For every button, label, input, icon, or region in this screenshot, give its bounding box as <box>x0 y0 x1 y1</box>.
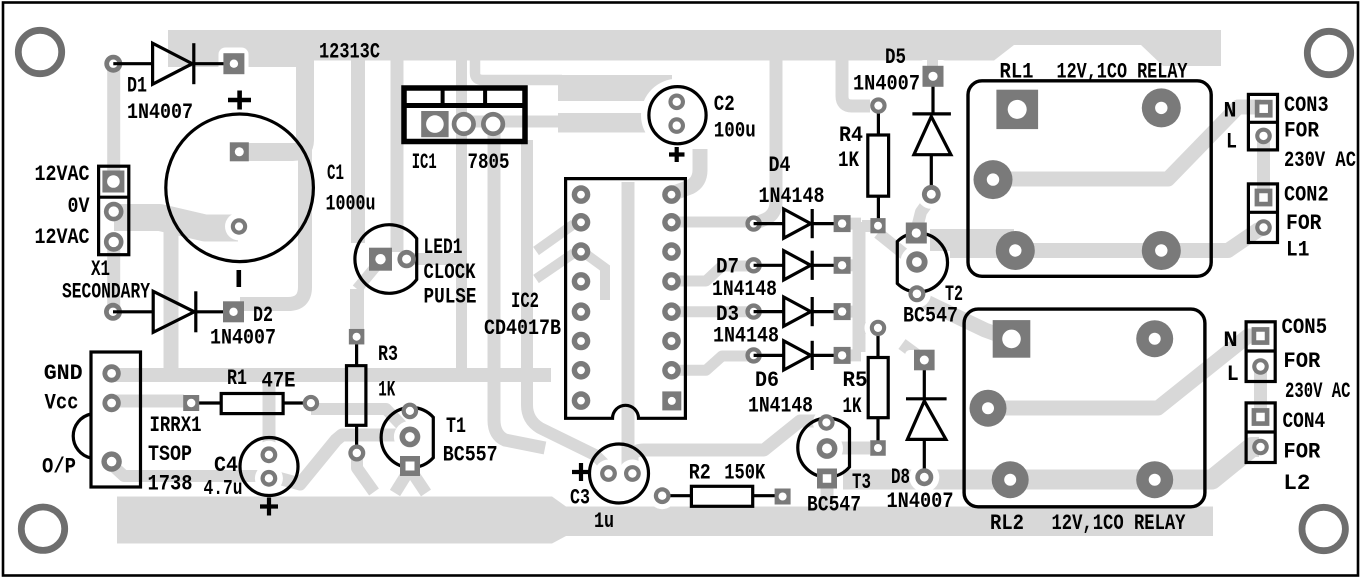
svg-text:1N4148: 1N4148 <box>759 184 825 209</box>
svg-text:12VAC: 12VAC <box>35 162 90 187</box>
wire T1 emitter to bottom band <box>395 472 408 493</box>
svg-text:230V AC: 230V AC <box>1285 379 1351 404</box>
capacitor C3 <box>572 444 649 503</box>
pad X1-1 <box>102 171 124 193</box>
diode D2 <box>104 291 244 332</box>
mounting hole top-right <box>1307 31 1350 74</box>
wire IC2 pin to D3 <box>672 306 748 317</box>
IC IC2 outline <box>566 179 686 419</box>
svg-text:1738: 1738 <box>148 472 193 497</box>
wire IC2 pin to D6 <box>672 356 748 370</box>
pad IC2 R5 <box>662 302 681 321</box>
LED1 <box>355 225 417 294</box>
pad T3 emitter <box>817 469 837 489</box>
svg-text:12VAC: 12VAC <box>35 225 90 250</box>
wire CON3 L to CON2 pin1 <box>1257 140 1270 196</box>
svg-text:T3: T3 <box>852 470 871 495</box>
svg-text:RL2: RL2 <box>990 511 1024 536</box>
wire X1 pin3 to D2 pad <box>107 243 120 311</box>
pad C1 + <box>230 142 249 161</box>
capacitor C4 <box>240 438 298 516</box>
transistor T3 <box>798 418 850 477</box>
svg-text:CON3: CON3 <box>1284 93 1329 118</box>
svg-text:L: L <box>1226 130 1237 155</box>
diode D3 <box>745 297 850 326</box>
svg-text:BC547: BC547 <box>807 493 861 518</box>
wire D2 right pad to C1 bottom <box>240 140 305 304</box>
svg-text:N: N <box>1224 99 1237 124</box>
wire T2 emitter to RL2 coil pad <box>918 298 1010 339</box>
svg-text:12V,1CO RELAY: 12V,1CO RELAY <box>1052 511 1187 536</box>
resistor R1 <box>199 394 303 414</box>
wire R1 to T1 top <box>311 409 406 430</box>
wire T2 collector to RL1 <box>930 229 1014 251</box>
mounting hole bottom-left <box>21 507 64 550</box>
pad R5 bottom <box>870 440 886 456</box>
svg-text:7805: 7805 <box>468 150 510 175</box>
wire D5 ring to T2 base pad <box>917 198 931 233</box>
pad CON2-1 <box>1255 189 1273 207</box>
svg-text:C4: C4 <box>214 453 238 478</box>
wire D1 pad to X1 pin1 <box>107 66 120 180</box>
wire C4 to T1 base <box>278 435 407 484</box>
resistor R2 <box>670 486 775 506</box>
pad R3 top <box>349 329 365 345</box>
sensor IRRX1 box <box>73 352 140 487</box>
pad IC2 R4 <box>662 272 681 291</box>
relay RL2 <box>964 309 1205 507</box>
connector CON3 <box>1248 94 1277 149</box>
wire D5 pad to top band <box>926 44 941 68</box>
wire GND band <box>112 368 551 382</box>
pad R5 top <box>870 320 886 336</box>
wire R3 bottom to bottom band <box>357 456 374 492</box>
pad T1 top <box>402 403 419 420</box>
svg-text:CD4017B: CD4017B <box>484 316 561 341</box>
pad C2 b <box>668 117 685 134</box>
pad RL1 d <box>1142 231 1181 270</box>
svg-text:R5: R5 <box>843 368 868 393</box>
pad LED1 k <box>397 250 415 268</box>
pad RL1 a <box>1142 88 1181 127</box>
pad CON4-2 <box>1252 439 1269 456</box>
svg-text:FOR: FOR <box>1283 349 1321 374</box>
svg-text:100u: 100u <box>714 119 756 144</box>
wire IC2 internal vertical <box>622 182 635 468</box>
wire R2 left stub <box>657 498 668 508</box>
wire X1 pin2 to C1 bottom pad <box>114 218 238 229</box>
svg-text:CLOCK: CLOCK <box>424 260 477 285</box>
diode D5 <box>912 85 951 186</box>
wire O/P to C4 bottom <box>112 465 260 476</box>
wire C1 top pad to top band <box>242 55 305 152</box>
pad IC2 L3 <box>572 242 591 261</box>
svg-text:1N4148: 1N4148 <box>712 277 777 302</box>
pad IRRX1 O/P <box>101 451 121 471</box>
pad RL2 c <box>992 461 1029 498</box>
svg-text:N: N <box>1223 328 1238 353</box>
svg-text:150K: 150K <box>724 461 766 486</box>
pad D8 top <box>914 350 935 371</box>
svg-text:BC547: BC547 <box>903 304 958 329</box>
pad T2 mid <box>906 251 927 272</box>
connector X1 <box>99 166 129 255</box>
pad C3 a <box>600 465 617 482</box>
wire top band down to LED1 anode <box>391 56 404 252</box>
svg-text:CON4: CON4 <box>1283 409 1326 434</box>
svg-text:230V AC: 230V AC <box>1284 148 1356 173</box>
pad RL2 d <box>1136 461 1173 498</box>
svg-text:IRRX1: IRRX1 <box>150 413 202 438</box>
pad RL2 b <box>970 390 1007 427</box>
pad T1 emitter <box>400 456 420 476</box>
pad CON5-1 <box>1252 327 1270 345</box>
wire band to C2 top <box>475 55 562 80</box>
pad IC2 L8 <box>572 391 591 410</box>
svg-text:L2: L2 <box>1283 471 1310 496</box>
wire IC1 pad3 down then to C2 band <box>494 126 545 448</box>
wire LED1 cathode to IC2 <box>408 253 458 265</box>
connector CON2 <box>1248 184 1277 243</box>
pad CON3-1 <box>1255 100 1273 118</box>
svg-text:FOR: FOR <box>1286 211 1322 236</box>
transistor T2 <box>897 233 947 292</box>
wire vertical to C3 left <box>527 140 608 468</box>
pad IRRX1 Vcc <box>102 394 120 412</box>
svg-text:1K: 1K <box>378 378 396 403</box>
pad IC2 R8 <box>662 391 681 410</box>
pad RL2 a <box>1136 320 1173 357</box>
wire top power band <box>168 30 1221 67</box>
svg-text:BC557: BC557 <box>443 443 498 468</box>
wire D4 feed from top <box>756 45 776 223</box>
pad IC2 L7 <box>572 361 591 380</box>
svg-text:D7: D7 <box>716 255 739 280</box>
pad IC2 L6 <box>572 332 591 351</box>
pad X1-2 <box>104 202 124 222</box>
svg-text:L1: L1 <box>1286 238 1309 263</box>
relay RL1 <box>968 81 1211 276</box>
svg-text:GND: GND <box>44 361 83 386</box>
pad IC2 R2 <box>662 213 681 232</box>
pad IC2 L5 <box>572 302 591 321</box>
svg-text:C3: C3 <box>570 486 590 511</box>
svg-text:D4: D4 <box>769 153 791 178</box>
pad IRRX1 GND <box>102 364 120 382</box>
pad IC2 L1 <box>572 185 591 204</box>
wire R4 pad to T2 base <box>878 233 908 257</box>
pad X1-3 <box>104 232 124 252</box>
clearances <box>219 48 950 510</box>
capacitor C2 <box>649 87 706 162</box>
wire CON5 L to CON4 pin1 <box>1254 370 1267 417</box>
svg-text:R2: R2 <box>689 461 711 486</box>
regulator IC1 <box>404 88 525 142</box>
svg-text:1K: 1K <box>843 394 863 419</box>
svg-text:1u: 1u <box>594 509 614 534</box>
pad D5 top <box>923 66 944 87</box>
pad T1 base <box>400 427 421 448</box>
pad D8 bottom <box>915 468 933 486</box>
svg-text:LED1: LED1 <box>424 235 463 260</box>
wire D5 feed stub <box>927 56 938 70</box>
pad IC2 L2 <box>572 213 591 232</box>
diode D4 <box>745 209 850 238</box>
wire RL2 bottom band to CON4 <box>843 447 1259 480</box>
wire top band down to R3 top pad <box>351 56 365 243</box>
resistor R3 <box>347 343 366 447</box>
transistor T1 <box>381 408 433 468</box>
pad CON3-2 <box>1255 128 1272 145</box>
pad LED1 a <box>369 248 392 271</box>
pad IC2 R3 <box>662 242 681 261</box>
diode D8 <box>906 368 947 470</box>
pad R4 top <box>870 97 886 113</box>
svg-text:CON2: CON2 <box>1284 183 1329 208</box>
svg-text:R1: R1 <box>227 366 247 391</box>
svg-text:1000u: 1000u <box>326 192 376 217</box>
wire IC2 pin to D4 <box>672 217 748 228</box>
svg-text:Vcc: Vcc <box>45 391 79 416</box>
wire Vcc to R1 <box>112 395 184 408</box>
svg-text:1N4148: 1N4148 <box>748 394 813 419</box>
svg-text:RL1: RL1 <box>1000 60 1034 85</box>
wire D8 anode feed <box>902 344 925 361</box>
wire band to C2 bottom <box>458 116 562 128</box>
svg-text:SECONDARY: SECONDARY <box>62 280 151 305</box>
pad R2 right <box>775 489 791 505</box>
svg-text:4.7u: 4.7u <box>204 478 243 501</box>
wire IC2 internal stub <box>583 252 605 300</box>
diode D7 <box>745 251 850 280</box>
wire C3 right to T3 top <box>632 421 820 470</box>
svg-text:CON5: CON5 <box>1282 315 1328 340</box>
svg-text:D1: D1 <box>127 74 147 99</box>
pad R3 bottom <box>348 445 365 462</box>
svg-text:D6: D6 <box>755 368 779 393</box>
svg-text:0V: 0V <box>68 194 91 219</box>
pad CON5-2 <box>1252 358 1269 375</box>
pad C3 b <box>624 465 641 482</box>
svg-text:1N4148: 1N4148 <box>713 324 779 349</box>
pad IC2 R1 <box>662 185 681 204</box>
svg-text:L: L <box>1227 362 1239 387</box>
wire diode output bus <box>853 222 866 352</box>
pad R4 bottom <box>870 218 885 233</box>
svg-text:T1: T1 <box>446 414 466 439</box>
svg-text:12V,1CO RELAY: 12V,1CO RELAY <box>1057 60 1189 85</box>
resistor R4 <box>868 113 889 219</box>
svg-text:D2: D2 <box>253 303 273 328</box>
svg-text:FOR: FOR <box>1284 119 1320 144</box>
pad CON2-2 <box>1255 219 1272 236</box>
pad IC1-2 <box>452 112 476 136</box>
pad RL1 c <box>996 231 1035 270</box>
wire IC2 left stubs <box>536 224 574 251</box>
svg-text:PULSE: PULSE <box>424 284 477 309</box>
pad D5 bottom <box>922 185 941 204</box>
capacitor C1 <box>166 91 314 288</box>
pad IC2 R7 <box>662 361 681 380</box>
wire T3 emitter to bottom band <box>821 484 834 508</box>
pad T2 bottom <box>908 285 925 302</box>
svg-text:O/P: O/P <box>42 455 76 480</box>
pad RL1 coil1 <box>996 90 1038 129</box>
wire T3 collector to R5 bottom <box>830 442 870 455</box>
pad C4 b <box>261 470 278 487</box>
svg-text:R4: R4 <box>839 123 863 148</box>
mounting hole top-left <box>18 30 61 73</box>
wire C2 down to IC2 right <box>674 149 700 193</box>
svg-text:1N4007: 1N4007 <box>210 326 276 351</box>
svg-text:IC1: IC1 <box>412 150 437 175</box>
pad R1 left <box>183 395 199 411</box>
svg-text:FOR: FOR <box>1283 440 1321 465</box>
wire IC1 pad2 down to GND band <box>456 50 467 372</box>
wire GND band down to C4 top <box>263 380 276 450</box>
pad IC2 L4 <box>572 272 591 291</box>
pad C2 a <box>668 94 685 111</box>
svg-text:D5: D5 <box>885 45 906 70</box>
wire R4 top to band <box>842 45 870 106</box>
connector CON4 <box>1246 403 1275 463</box>
pad IC2 R6 <box>662 332 681 351</box>
resistor R5 <box>868 333 888 442</box>
wire IC2 pin to D7 <box>672 266 748 281</box>
wire bottom power band <box>117 497 1213 544</box>
wire X1 band down to GND band <box>164 228 179 375</box>
wire RL1 to CON3 N <box>995 107 1261 179</box>
pad CON4-1 <box>1252 408 1270 426</box>
pad IC1-3 <box>481 112 505 136</box>
svg-text:R3: R3 <box>378 342 398 367</box>
pad T3 mid <box>817 438 838 459</box>
pad T3 top <box>818 414 834 430</box>
pad C1 - <box>231 218 247 234</box>
svg-text:12313C: 12313C <box>319 40 380 65</box>
svg-text:1N4007: 1N4007 <box>887 489 954 514</box>
mounting hole bottom-right <box>1302 507 1345 550</box>
pad R2 left <box>654 487 671 504</box>
wire RL2 coil to CON5 N <box>990 336 1259 408</box>
diode D6 <box>745 341 850 370</box>
bus stubs <box>845 224 872 356</box>
svg-text:1K: 1K <box>838 148 860 173</box>
connector CON5 <box>1246 322 1275 382</box>
pad T2 base <box>906 223 927 244</box>
diode D1 <box>104 43 244 84</box>
pad RL1 b <box>974 160 1013 199</box>
svg-text:C2: C2 <box>714 92 735 117</box>
pad RL2 coil1 <box>993 320 1031 358</box>
wire RL1 bottom band to CON2 <box>950 228 1263 251</box>
svg-text:C1: C1 <box>327 161 344 186</box>
svg-text:TSOP: TSOP <box>148 442 192 467</box>
svg-text:47E: 47E <box>262 369 296 394</box>
pad C4 a <box>261 446 278 463</box>
svg-text:1N4007: 1N4007 <box>853 72 920 97</box>
svg-text:1N4007: 1N4007 <box>127 100 193 125</box>
svg-text:IC2: IC2 <box>511 289 539 314</box>
pad R1 right <box>303 395 319 411</box>
pad IC1-1 <box>421 111 448 137</box>
svg-text:D8: D8 <box>891 465 910 490</box>
svg-text:X1: X1 <box>91 257 110 282</box>
